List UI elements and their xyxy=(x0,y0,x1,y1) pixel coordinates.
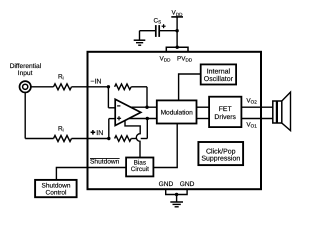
svg-text:−IN: −IN xyxy=(90,78,101,85)
svg-text:PVDD: PVDD xyxy=(177,55,193,62)
svg-text:Shutdown: Shutdown xyxy=(90,159,120,166)
svg-text:Shutdown: Shutdown xyxy=(42,182,71,189)
svg-text:Differential: Differential xyxy=(10,63,42,70)
svg-text:Modulation: Modulation xyxy=(161,110,194,117)
svg-text:Oscillator: Oscillator xyxy=(204,75,234,83)
svg-text:Drivers: Drivers xyxy=(214,114,236,121)
svg-text:Ri: Ri xyxy=(58,125,64,132)
svg-text:Control: Control xyxy=(46,190,68,197)
svg-text:IN: IN xyxy=(96,130,103,137)
svg-text:Click/Pop: Click/Pop xyxy=(206,147,236,155)
svg-text:GND: GND xyxy=(159,181,174,188)
svg-text:Suppression: Suppression xyxy=(201,154,240,162)
svg-text:VO1: VO1 xyxy=(246,121,257,128)
svg-text:Circuit: Circuit xyxy=(131,166,149,173)
svg-text:Ri: Ri xyxy=(58,73,64,80)
svg-text:Internal: Internal xyxy=(207,68,231,76)
svg-text:VDD: VDD xyxy=(172,10,184,17)
svg-text:Input: Input xyxy=(18,70,33,77)
svg-text:VO2: VO2 xyxy=(246,97,257,104)
svg-text:VDD: VDD xyxy=(160,55,172,62)
svg-text:GND: GND xyxy=(180,181,195,188)
svg-text:CS: CS xyxy=(153,17,161,24)
svg-text:FET: FET xyxy=(219,106,232,113)
